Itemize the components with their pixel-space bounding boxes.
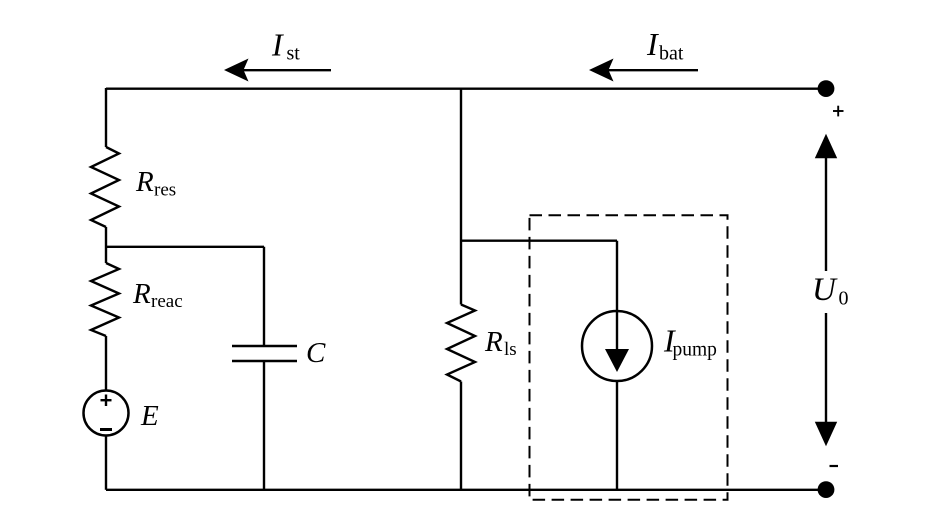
svg-text:ls: ls	[504, 339, 517, 360]
svg-text:R: R	[132, 278, 151, 310]
svg-text:E: E	[140, 400, 159, 432]
svg-text:C: C	[306, 337, 326, 369]
svg-text:R: R	[135, 166, 154, 198]
svg-text:res: res	[154, 180, 176, 201]
svg-text:st: st	[287, 43, 301, 65]
svg-text:R: R	[484, 326, 503, 358]
svg-text:pump: pump	[673, 340, 717, 361]
svg-text:U: U	[812, 272, 838, 308]
svg-text:I: I	[646, 26, 659, 62]
svg-text:I: I	[271, 27, 284, 63]
svg-text:reac: reac	[151, 291, 183, 312]
svg-text:0: 0	[839, 288, 849, 310]
svg-text:bat: bat	[659, 43, 684, 65]
